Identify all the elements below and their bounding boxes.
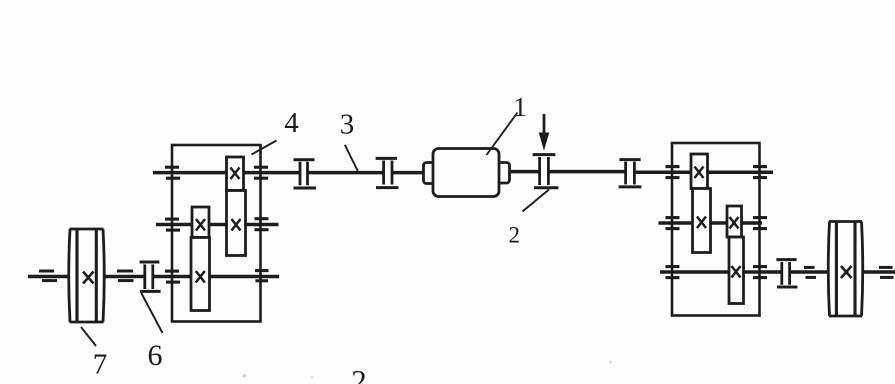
wheel 7 left <box>69 229 105 322</box>
wire top motor shaft segments <box>153 172 773 173</box>
leader line label 2 <box>523 190 550 212</box>
bearing dashes left of right wheel <box>804 267 816 277</box>
gear wheel stage2 left gearbox <box>191 238 210 311</box>
gearbox housing right <box>672 143 760 316</box>
wire right bottom wheel shaft <box>660 270 895 274</box>
bearing caps left housing right side <box>254 167 269 281</box>
scan specks <box>243 361 612 379</box>
wheel right <box>828 222 863 317</box>
gear wheel stage1 right gearbox <box>693 189 711 253</box>
svg-text:1: 1 <box>513 92 527 122</box>
gear wheel stage1 left gearbox <box>227 191 246 256</box>
gearbox housing left <box>172 145 261 322</box>
leader line label 4 <box>252 141 277 155</box>
coupling A left gearbox output <box>294 160 317 188</box>
bearing dashes right of right wheel <box>879 267 894 277</box>
svg-text:7: 7 <box>93 349 108 381</box>
coupling D right gearbox input <box>619 160 642 187</box>
leader line label 6 <box>141 293 162 333</box>
coupling F left wheel shaft label6 <box>140 262 161 291</box>
coupling C brake coupling label2 <box>533 155 559 188</box>
gear pinion stage2 left gearbox <box>192 207 209 238</box>
svg-text:4: 4 <box>284 107 299 139</box>
bearing caps left housing left side <box>165 167 180 282</box>
motor 1 <box>424 149 510 197</box>
coupling B before motor <box>376 158 399 187</box>
wire left middle shaft <box>156 223 279 227</box>
leader line label 7 <box>81 327 96 346</box>
svg-text:2: 2 <box>351 363 367 384</box>
gear pinion stage2 right gearbox <box>727 206 742 237</box>
svg-text:3: 3 <box>340 109 355 141</box>
X hub marks gears right <box>695 167 741 278</box>
brake arrow <box>539 114 550 151</box>
gear pinion stage1 right gearbox <box>691 154 708 189</box>
leader line label 1 <box>487 113 518 156</box>
wire left bottom wheel shaft <box>28 275 279 279</box>
svg-text:6: 6 <box>148 339 163 372</box>
bearing caps right housing right side <box>753 167 767 278</box>
coupling E right wheel shaft <box>776 260 797 287</box>
gear pinion stage1 left gearbox <box>227 157 244 191</box>
bearing dashes left of left wheel <box>39 271 57 281</box>
bearing dashes right of left wheel <box>117 271 134 281</box>
svg-text:2: 2 <box>508 222 520 247</box>
X hub marks gears left <box>196 168 241 283</box>
gear wheel stage2 right gearbox <box>729 237 744 304</box>
bearing caps right housing left side <box>666 167 680 278</box>
leader line label 3 <box>345 145 358 172</box>
wire right middle shaft <box>659 221 763 225</box>
